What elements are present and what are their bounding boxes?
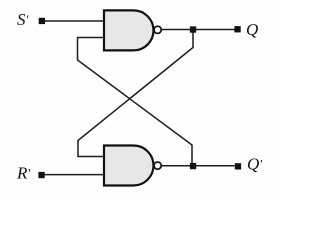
svg-text:Q': Q' [247, 154, 262, 173]
svg-text:S': S' [17, 10, 29, 29]
svg-text:R': R' [16, 164, 30, 183]
svg-text:Q: Q [246, 20, 258, 39]
